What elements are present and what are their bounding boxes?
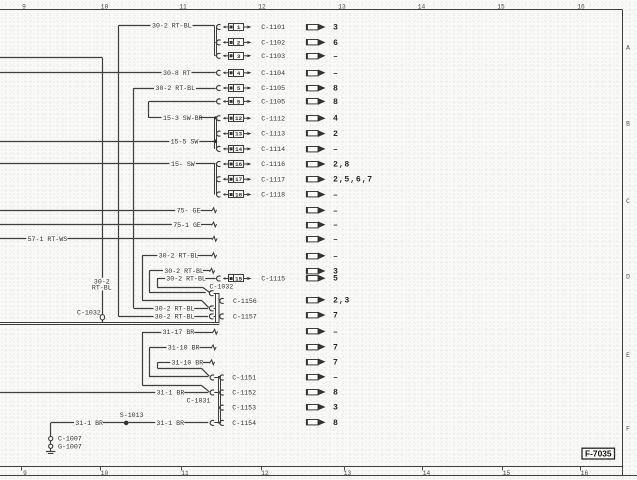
svg-text:D: D bbox=[626, 274, 630, 281]
svg-text:C-1151: C-1151 bbox=[232, 375, 256, 382]
connector C-1007 eyelet bbox=[49, 437, 53, 441]
connector C-1112 pin 12 bbox=[217, 115, 286, 123]
wire vertical 30-2 RT-BL from C-1105 row to C-1156 row bbox=[133, 88, 135, 308]
junction dot 15-5 SW bbox=[214, 140, 218, 144]
svg-text:C-1031: C-1031 bbox=[187, 398, 211, 405]
wire 75- GE from left edge bbox=[0, 208, 217, 213]
svg-text:C-1104: C-1104 bbox=[261, 70, 285, 77]
label 30-2 RT-BL (stacked, on vertical wire) bbox=[92, 278, 112, 291]
svg-text:6: 6 bbox=[333, 39, 339, 48]
connector C-1154 bbox=[220, 420, 256, 427]
wire bus to C-1102 bbox=[215, 42, 216, 44]
svg-text:–: – bbox=[333, 252, 339, 261]
svg-text:75- GE: 75- GE bbox=[177, 208, 201, 215]
off-page arrow, circuit continues to 7 bbox=[306, 344, 326, 351]
svg-text:30-2 RT-BL: 30-2 RT-BL bbox=[155, 313, 195, 320]
off-page arrow, circuit continues to &#8211; bbox=[306, 53, 326, 60]
wire vertical to C-1032 top entry bbox=[149, 271, 151, 293]
off-page arrow, circuit continues to &#8211; bbox=[306, 191, 326, 198]
wire 30-2 RT-BL to C-1101 bus bbox=[118, 25, 214, 27]
top ruler numbers bbox=[22, 4, 585, 11]
svg-text:C-1152: C-1152 bbox=[232, 390, 256, 397]
wire 31-1 BR from left edge bbox=[0, 392, 208, 394]
svg-text:5: 5 bbox=[237, 98, 241, 105]
connector C-1118 pin 18 bbox=[217, 191, 286, 199]
connector C-1113 pin 13 bbox=[217, 131, 286, 138]
bus for C-1112 C-1113 C-1114 bbox=[215, 118, 217, 149]
connector C-1103 pin 3 bbox=[217, 53, 286, 60]
entry connector C (C-1151 cavity) bbox=[210, 375, 218, 380]
wire 30-2 RT-BL into C-1157 entry bbox=[118, 316, 208, 318]
svg-text:7: 7 bbox=[333, 312, 339, 321]
connector C-1157 bbox=[220, 314, 257, 321]
off-page arrow, circuit continues to &#8211; bbox=[306, 328, 326, 335]
wire into C-1032 top entry bbox=[149, 292, 206, 294]
svg-text:13: 13 bbox=[338, 4, 346, 11]
wire vertical 31-10 BR to C-1151 upper bbox=[157, 363, 209, 377]
wire 31-1 BR bottom with splice bbox=[51, 422, 209, 424]
wire 57-1 RT-WS from left edge bbox=[0, 236, 217, 241]
off-page arrow, circuit continues to 8 bbox=[306, 419, 326, 426]
off-page arrow, circuit continues to 8 bbox=[306, 389, 326, 396]
svg-text:7: 7 bbox=[333, 343, 339, 352]
svg-text:8: 8 bbox=[333, 85, 339, 94]
bus for C-1101 C-1102 C-1103 bbox=[215, 26, 217, 56]
wire 15-3 SW-BR bbox=[149, 117, 215, 119]
svg-text:C-1156: C-1156 bbox=[233, 298, 257, 305]
wire 30-2 RT-BL into C-1156 entry bbox=[134, 308, 208, 310]
off-page arrow, circuit continues to &#8211; bbox=[306, 236, 326, 243]
svg-text:C-1105: C-1105 bbox=[261, 99, 285, 106]
off-page arrow, circuit continues to 2 bbox=[306, 130, 326, 137]
svg-text:16: 16 bbox=[235, 161, 242, 168]
sheet number box F-7035 bbox=[582, 448, 615, 459]
entry connector C (top) bbox=[209, 291, 215, 296]
wire vertical 30-2 RT-BL down to C-1032 bbox=[102, 58, 104, 315]
svg-text:4: 4 bbox=[237, 70, 241, 77]
svg-text:C-1154: C-1154 bbox=[232, 420, 256, 427]
svg-text:14: 14 bbox=[235, 146, 242, 153]
off-page arrow, circuit continues to 7 bbox=[306, 312, 326, 319]
svg-text:8: 8 bbox=[333, 389, 339, 398]
svg-text:C-1115: C-1115 bbox=[261, 276, 285, 283]
svg-text:75-1 GE: 75-1 GE bbox=[173, 222, 201, 229]
connector C-1102 pin 2 bbox=[217, 39, 286, 47]
wire vertical 31-10 BR to C-1151 bbox=[149, 348, 208, 377]
wire 15- SW from left edge bbox=[0, 163, 215, 165]
svg-text:C-1103: C-1103 bbox=[261, 53, 285, 60]
off-page arrow, circuit continues to &#8211; bbox=[306, 374, 326, 381]
svg-text:–: – bbox=[333, 145, 339, 154]
wire 15-5 SW from left edge bbox=[0, 141, 215, 143]
wire 30-2 RT-BL stub row 2 bbox=[149, 268, 214, 273]
wire 75-1 GE from left edge bbox=[0, 222, 217, 227]
svg-text:57-1 RT-WS: 57-1 RT-WS bbox=[28, 236, 68, 243]
svg-text:15: 15 bbox=[235, 276, 242, 283]
connector C-1104 pin 4 bbox=[217, 70, 286, 77]
wire bus to C-1103 bbox=[215, 55, 216, 57]
svg-text:C-1101: C-1101 bbox=[261, 24, 285, 31]
wire vertical 31-17 BR to C-1152 bbox=[143, 332, 210, 392]
off-page arrow, circuit continues to 8 bbox=[306, 85, 326, 92]
wire vertical 30-2 RT-BL feeding C-1101 group and C-1157 bbox=[118, 26, 120, 317]
svg-text:C-1105: C-1105 bbox=[261, 85, 285, 92]
svg-text:C-1112: C-1112 bbox=[261, 115, 285, 122]
bottom sheet edge line bbox=[0, 475, 637, 477]
svg-text:C-1032: C-1032 bbox=[210, 283, 234, 290]
svg-text:30-2 RT-BL: 30-2 RT-BL bbox=[152, 23, 192, 30]
svg-text:31-1 BR: 31-1 BR bbox=[156, 420, 184, 427]
connector C-1115 pin 15 bbox=[217, 275, 286, 283]
svg-text:31-10 BR: 31-10 BR bbox=[172, 360, 204, 367]
svg-text:31-17 BR: 31-17 BR bbox=[163, 329, 195, 336]
svg-text:15: 15 bbox=[497, 4, 505, 11]
wire to C-1105 second cavity bbox=[149, 101, 216, 118]
svg-text:C-1102: C-1102 bbox=[261, 40, 285, 47]
wire from vertical into C-1156 entry bbox=[142, 301, 208, 308]
svg-text:30-2 RT-BL: 30-2 RT-BL bbox=[159, 253, 199, 260]
svg-text:30-2 RT-BL: 30-2 RT-BL bbox=[166, 276, 206, 283]
off-page arrow, circuit continues to 4 bbox=[306, 115, 326, 122]
bottom ruler line bbox=[0, 466, 623, 468]
svg-text:14: 14 bbox=[418, 4, 426, 11]
ground symbol bbox=[46, 448, 56, 453]
svg-text:2,3: 2,3 bbox=[333, 296, 350, 305]
svg-text:31-1 BR: 31-1 BR bbox=[75, 420, 103, 427]
svg-text:E: E bbox=[626, 352, 630, 359]
connector C-1101 pin 1 bbox=[217, 24, 286, 32]
svg-text:C-1007: C-1007 bbox=[58, 436, 82, 443]
off-page arrow, circuit continues to &#8211; bbox=[306, 221, 326, 228]
svg-text:11: 11 bbox=[179, 4, 187, 11]
svg-text:C-1116: C-1116 bbox=[261, 161, 285, 168]
off-page arrow, circuit continues to 3 bbox=[306, 24, 326, 31]
svg-text:8: 8 bbox=[333, 419, 339, 428]
svg-text:5: 5 bbox=[237, 85, 241, 92]
svg-text:12: 12 bbox=[258, 4, 266, 11]
svg-text:13: 13 bbox=[235, 131, 242, 138]
svg-text:3: 3 bbox=[333, 404, 339, 413]
svg-text:A: A bbox=[626, 45, 630, 52]
off-page arrow, circuit continues to 3 bbox=[306, 268, 326, 275]
svg-text:15-5 SW: 15-5 SW bbox=[171, 138, 199, 145]
svg-text:30-2 RT-BL: 30-2 RT-BL bbox=[156, 85, 196, 92]
entry connector C (C-1157 cavity) bbox=[209, 314, 215, 319]
entry connector C (C-1152 cavity) bbox=[210, 390, 218, 395]
svg-text:F-7035: F-7035 bbox=[585, 449, 612, 459]
wire 30-2 RT-BL stub row 1 bbox=[142, 253, 216, 258]
svg-text:31-10 BR: 31-10 BR bbox=[168, 345, 200, 352]
off-page arrow, circuit continues to 5 bbox=[306, 275, 326, 282]
wire vertical to C-1156 feed bbox=[142, 256, 144, 301]
wire 31-10 BR stub 1 bbox=[149, 345, 216, 350]
right border zone letters bbox=[626, 45, 630, 433]
svg-text:C-1118: C-1118 bbox=[261, 192, 285, 199]
off-page arrow, circuit continues to 3 bbox=[306, 404, 326, 411]
svg-text:2,8: 2,8 bbox=[333, 161, 350, 170]
wire drop from C-1115 row to C-1032 housing bbox=[157, 279, 210, 293]
wire down to C-1007 ground connector bbox=[50, 423, 52, 437]
svg-text:2,5,6,7: 2,5,6,7 bbox=[333, 176, 373, 185]
svg-text:C-1153: C-1153 bbox=[232, 405, 256, 412]
wire from left edge, circuit 30-2 RT-BL bbox=[0, 57, 102, 59]
wire stub oval to bus bbox=[102, 320, 104, 322]
svg-text:C-1117: C-1117 bbox=[261, 176, 285, 183]
svg-text:1: 1 bbox=[237, 24, 241, 31]
off-page arrow, circuit continues to 2,8 bbox=[306, 161, 326, 168]
svg-text:16: 16 bbox=[577, 4, 585, 11]
connector G-1007 eyelet bbox=[49, 444, 53, 448]
svg-text:9: 9 bbox=[22, 4, 26, 11]
connector C-1105 pin 5 bbox=[217, 98, 286, 106]
svg-text:30-2 RT-BL: 30-2 RT-BL bbox=[155, 305, 195, 312]
connector housing C-1031 bbox=[219, 377, 221, 424]
connector C-1114 pin 14 bbox=[217, 146, 286, 154]
off-page arrow, circuit continues to 8 bbox=[306, 98, 326, 105]
top ruler line bbox=[0, 9, 623, 11]
svg-text:G-1007: G-1007 bbox=[58, 443, 82, 450]
entry connector C (C-1154 cavity) bbox=[210, 420, 218, 425]
wire 31-10 BR stub 2 bbox=[157, 360, 214, 365]
entry connector C (C-1156 cavity) bbox=[209, 306, 215, 311]
svg-text:7: 7 bbox=[333, 358, 339, 367]
inline connector C-1032 oval symbol bbox=[100, 315, 104, 320]
svg-text:10: 10 bbox=[101, 4, 109, 11]
svg-text:30-2 RT-BL: 30-2 RT-BL bbox=[164, 268, 204, 275]
off-page arrow, circuit continues to &#8211; bbox=[306, 207, 326, 214]
svg-text:–: – bbox=[333, 191, 339, 200]
wire 30-8 RT from left edge bbox=[0, 72, 216, 74]
svg-text:8: 8 bbox=[333, 98, 339, 107]
wire pair 30-2 RT-BL bus from left edge bbox=[0, 323, 219, 325]
off-page arrow, circuit continues to 2,3 bbox=[306, 297, 326, 304]
svg-text:–: – bbox=[333, 373, 339, 382]
svg-text:4: 4 bbox=[333, 115, 339, 124]
svg-text:–: – bbox=[333, 69, 339, 78]
svg-text:–: – bbox=[333, 221, 339, 230]
wire 30-2 RT-BL to C-1115 bbox=[157, 278, 216, 280]
svg-text:B: B bbox=[626, 121, 630, 128]
svg-text:2: 2 bbox=[333, 130, 339, 139]
wire 30-2 RT-BL to C-1105 bbox=[134, 88, 216, 90]
splice S-1013 bbox=[124, 421, 129, 426]
svg-text:5: 5 bbox=[333, 275, 339, 284]
off-page arrow, circuit continues to 6 bbox=[306, 39, 326, 46]
right border line bbox=[622, 10, 624, 476]
svg-text:–: – bbox=[333, 52, 339, 61]
connector C-1152 bbox=[220, 390, 256, 397]
connector C-1153 bbox=[220, 405, 256, 412]
svg-text:12: 12 bbox=[235, 115, 242, 122]
svg-text:C-1032: C-1032 bbox=[77, 309, 101, 316]
svg-text:S-1013: S-1013 bbox=[120, 412, 144, 419]
off-page arrow, circuit continues to 7 bbox=[306, 359, 326, 366]
wire 31-17 BR stub bbox=[143, 329, 218, 334]
svg-text:–: – bbox=[333, 328, 339, 337]
connector C-1116 pin 16 bbox=[217, 161, 286, 169]
off-page arrow, circuit continues to 2,5,6,7 bbox=[306, 176, 326, 183]
svg-text:C-1113: C-1113 bbox=[261, 131, 285, 138]
bus for C-1116 C-1117 C-1118 bbox=[215, 164, 217, 195]
svg-text:2: 2 bbox=[237, 39, 241, 46]
off-page arrow, circuit continues to &#8211; bbox=[306, 253, 326, 260]
svg-text:C-1157: C-1157 bbox=[233, 314, 257, 321]
bottom ruler numbers and ticks bbox=[22, 467, 589, 477]
svg-text:F: F bbox=[626, 426, 630, 433]
svg-text:31-1 BR: 31-1 BR bbox=[157, 390, 185, 397]
connector C-1117 pin 17 bbox=[217, 176, 286, 184]
svg-text:RT-BL: RT-BL bbox=[92, 284, 112, 291]
connector C-1105 pin 5 bbox=[217, 85, 286, 93]
wire between eyelets bbox=[50, 441, 52, 444]
svg-text:C-1114: C-1114 bbox=[261, 146, 285, 153]
connector C-1156 bbox=[220, 298, 257, 305]
svg-text:–: – bbox=[333, 236, 339, 245]
svg-text:3: 3 bbox=[333, 24, 339, 33]
off-page arrow, circuit continues to &#8211; bbox=[306, 70, 326, 77]
connector C-1151 bbox=[220, 375, 256, 382]
connector housing C-1032 bbox=[216, 294, 220, 323]
svg-text:15- SW: 15- SW bbox=[171, 161, 195, 168]
svg-text:30-8 RT: 30-8 RT bbox=[163, 70, 191, 77]
off-page arrow, circuit continues to &#8211; bbox=[306, 146, 326, 153]
svg-text:3: 3 bbox=[237, 53, 241, 60]
svg-text:17: 17 bbox=[235, 176, 242, 183]
svg-text:–: – bbox=[333, 207, 339, 216]
svg-text:15-3 SW-BR: 15-3 SW-BR bbox=[163, 115, 203, 122]
svg-text:18: 18 bbox=[235, 192, 242, 199]
junction dot bbox=[214, 116, 217, 119]
svg-text:C: C bbox=[626, 198, 630, 205]
